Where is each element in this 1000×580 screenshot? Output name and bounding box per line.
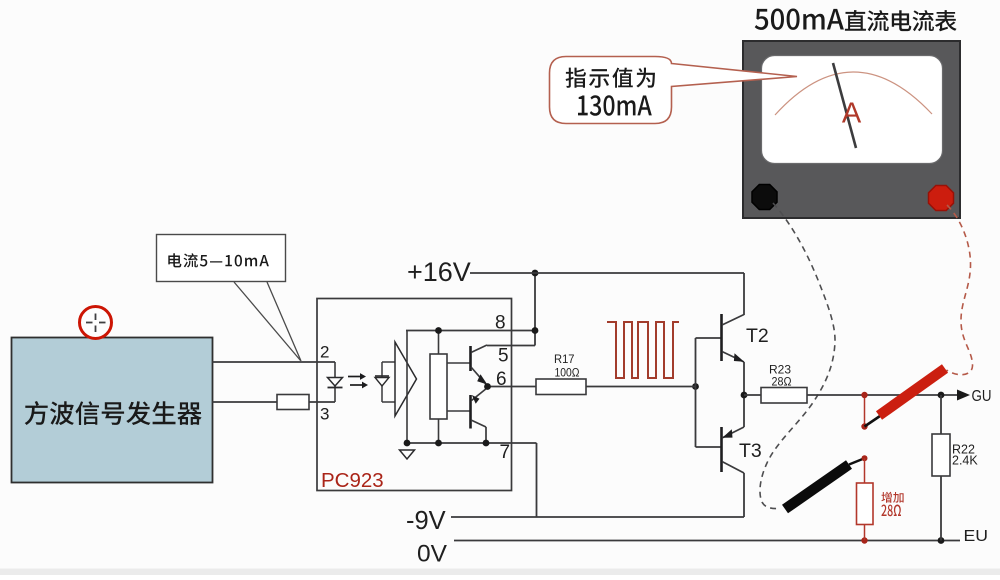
svg-text:T2: T2: [746, 325, 769, 347]
svg-text:EU: EU: [964, 528, 989, 545]
svg-text:8: 8: [495, 313, 506, 334]
svg-text:2.4K: 2.4K: [952, 454, 978, 468]
svg-text:0V: 0V: [417, 541, 448, 568]
svg-text:100Ω: 100Ω: [555, 366, 580, 380]
svg-text:2: 2: [320, 343, 329, 362]
svg-text:28Ω: 28Ω: [772, 375, 792, 389]
svg-text:7: 7: [500, 442, 511, 463]
svg-text:GU: GU: [972, 388, 992, 405]
svg-text:6: 6: [496, 369, 507, 390]
svg-text:R17: R17: [554, 352, 575, 366]
svg-text:A: A: [842, 98, 862, 130]
svg-text:-9V: -9V: [406, 507, 446, 535]
svg-text:5: 5: [498, 346, 509, 367]
svg-text:PC923: PC923: [321, 469, 384, 492]
svg-text:3: 3: [320, 405, 329, 424]
svg-text:T3: T3: [739, 440, 762, 462]
svg-text:+16V: +16V: [407, 257, 471, 287]
